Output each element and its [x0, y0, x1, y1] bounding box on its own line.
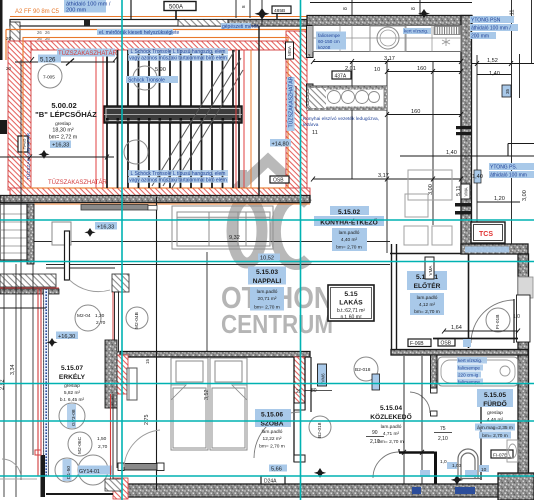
orange line below wall — [0, 203, 310, 205]
circle label T-005 upper left — [38, 64, 62, 88]
dim line y63 right — [472, 63, 534, 65]
orange utility line top — [6, 29, 307, 31]
furdo door frames — [431, 388, 438, 393]
label 5.15.03 NAPPALI — [248, 267, 286, 311]
label 5.15.04 KOZLEKEDO — [370, 405, 411, 445]
svg-text:5,90: 5,90 — [155, 67, 166, 73]
vertical dim line kozlekedo2 — [421, 356, 423, 484]
svg-text:485B: 485B — [274, 8, 285, 14]
dim line stairwell y157 — [0, 156, 114, 158]
label D24A box bottom — [261, 476, 285, 485]
sofa — [172, 206, 273, 249]
svg-text:5.15.07: 5.15.07 — [61, 365, 83, 372]
svg-text:+16,30: +16,30 — [58, 334, 75, 340]
svg-text:4,12 m²: 4,12 m² — [419, 302, 436, 308]
furdo door arc — [410, 392, 430, 413]
svg-text:2,10: 2,10 — [370, 439, 380, 445]
label +16,33 stairwell — [50, 141, 71, 149]
elevation star kozlekedo bottom — [314, 468, 326, 478]
svg-text:200 mm: 200 mm — [66, 8, 87, 14]
left edge black bar upper — [0, 120, 7, 134]
hatched corner block top-left — [10, 22, 20, 44]
left dim lines — [4, 60, 33, 497]
svg-text:VMA: VMA — [428, 265, 433, 276]
svg-text:2,10: 2,10 — [438, 436, 448, 442]
balcony railing red lines — [38, 289, 49, 476]
fire wall red hatch left band — [8, 41, 31, 190]
svg-text:3,34: 3,34 — [10, 365, 16, 376]
svg-text:TŰZSZAKASZHATÁR: TŰZSZAKASZHATÁR — [48, 179, 108, 186]
kitchen left thin wall upper — [307, 26, 314, 58]
label TUZSZAKASZHATAR vertical on right band — [287, 76, 295, 131]
balcony top rail second line — [46, 267, 115, 269]
svg-text:10: 10 — [374, 67, 380, 73]
elevation star stairwell — [38, 150, 49, 159]
label 5.15.07 ERKELY — [59, 365, 86, 403]
label Schock highlighted mid — [126, 76, 178, 84]
balcony bottom rail line — [46, 493, 113, 495]
fire wall red hatch right band — [286, 31, 307, 197]
label OSB box right of stairwell — [270, 176, 289, 184]
svg-text:FI-07B: FI-07B — [493, 453, 507, 459]
svg-text:8: 8 — [343, 7, 349, 10]
dim line 3,17 — [313, 61, 461, 63]
cyan grid horizontal H2 — [0, 261, 534, 263]
svg-text:NAPPALI: NAPPALI — [253, 278, 282, 285]
svg-text:F-06B: F-06B — [410, 341, 424, 347]
nappali dim line vertical — [206, 252, 208, 352]
svg-text:4,71 m²: 4,71 m² — [383, 431, 400, 437]
svg-text:3,00: 3,00 — [522, 190, 528, 201]
label YTONG PSN — [470, 16, 518, 40]
svg-text:bm= 2,70 m: bm= 2,70 m — [378, 439, 403, 445]
svg-text:2,70: 2,70 — [96, 320, 106, 326]
svg-text:lam.padló: lam.padló — [381, 424, 402, 430]
stair up-arrow circle lower — [124, 140, 148, 164]
north cross — [255, 8, 270, 20]
orange line top y16.5 — [10, 16, 310, 18]
balcony top gray hatch band — [0, 274, 56, 287]
svg-text:200 mm: 200 mm — [471, 34, 489, 40]
svg-text:TŰZSZAKASZHATÁR: TŰZSZAKASZHATÁR — [288, 76, 295, 127]
label VM6 blue box — [318, 364, 327, 386]
svg-text:4,40 m²: 4,40 m² — [341, 237, 358, 243]
label 5.15.06 SZOBA — [255, 409, 291, 450]
railing red top box — [35, 450, 41, 455]
kitchen eloter boundary line — [390, 253, 461, 255]
svg-text:500A: 500A — [169, 5, 183, 11]
svg-text:áthidaló 100 mm /: áthidaló 100 mm / — [471, 26, 511, 32]
svg-text:1,20: 1,20 — [494, 196, 505, 202]
pipe bar on right wall b — [455, 211, 472, 215]
label M2-04 circle — [75, 305, 106, 331]
radiator TCS box — [471, 222, 505, 243]
label kert vizsg kitchen — [403, 28, 431, 34]
svg-text:15: 15 — [145, 359, 150, 364]
svg-text:CENTRUM: CENTRUM — [221, 309, 333, 339]
railing lower black segment — [41, 455, 46, 497]
svg-text:26: 26 — [37, 30, 42, 35]
svg-text:vagy azonos műszaki tartalomma: vagy azonos műszaki tartalommal bíró ele… — [129, 56, 227, 62]
svg-text:b.t.:62,71 m²: b.t.:62,71 m² — [337, 308, 365, 314]
svg-text:18,30 m²: 18,30 m² — [52, 128, 73, 134]
bottom left hatch pillar — [113, 478, 128, 499]
label 485B box — [272, 6, 291, 19]
bottom right corner block — [498, 473, 534, 500]
svg-text:26: 26 — [45, 30, 50, 35]
svg-text:bm= 2,70 m: bm= 2,70 m — [336, 245, 361, 251]
toilet arch — [455, 449, 480, 479]
step boundary lines right — [400, 144, 534, 157]
szoba door frame top — [294, 403, 305, 410]
label Konyhai elszivo — [303, 116, 379, 128]
label falicsempe kitchen — [316, 32, 346, 51]
svg-text:ELŐTÉR: ELŐTÉR — [414, 281, 441, 290]
svg-text:26: 26 — [45, 36, 50, 41]
pipe bar right wall upper pair — [456, 126, 472, 129]
svg-text:M2-04: M2-04 — [77, 313, 91, 319]
label gepeszeti merook — [221, 23, 259, 30]
balcony door leaf bottom — [118, 430, 164, 471]
section line y264 — [46, 264, 390, 266]
red line under hatch band — [0, 287, 59, 289]
elevation star erkely — [46, 338, 57, 347]
nappali west window — [113, 292, 119, 352]
label F-06B box — [408, 339, 431, 347]
dim line y202 right — [477, 201, 520, 203]
svg-text:ERKÉLY: ERKÉLY — [59, 372, 86, 381]
svg-text:11: 11 — [312, 130, 318, 136]
svg-text:lam.padló: lam.padló — [257, 289, 278, 295]
svg-text:10: 10 — [481, 467, 487, 473]
svg-text:D24A: D24A — [264, 479, 277, 485]
top tick marks — [262, 0, 420, 25]
svg-text:Konyhai elszívó vezeték ledugó: Konyhai elszívó vezeték ledugózva, — [303, 116, 379, 122]
svg-text:vagy azonos műszaki tartalomma: vagy azonos műszaki tartalommal bíró ele… — [129, 178, 227, 184]
svg-text:3,52: 3,52 — [204, 390, 210, 401]
cyan grid horizontal H4 — [0, 420, 534, 422]
svg-text:n.t. 60 m²: n.t. 60 m² — [340, 315, 361, 321]
cyan grid vertical line V2 — [300, 0, 302, 500]
blue VMA box on wall 352 — [372, 374, 380, 390]
dim line y74 short — [477, 74, 511, 76]
svg-text:lezárva: lezárva — [303, 122, 319, 128]
kitchen top counter — [313, 26, 461, 52]
red hatch pillar szoba west — [115, 355, 128, 394]
bottom exterior wall — [127, 484, 528, 497]
svg-text:1,52: 1,52 — [487, 58, 498, 64]
svg-text:el. mérőórák kieseti helyszüks: el. mérőórák kieseti helyszükséglete — [99, 30, 180, 36]
dim vertical line x512 — [511, 0, 513, 253]
dim line 160 second — [387, 114, 461, 116]
szoba window on west — [127, 368, 137, 400]
svg-text:437A: 437A — [335, 74, 347, 80]
wall line right of stairs — [258, 26, 260, 195]
dim vertical line x477 — [476, 55, 478, 253]
svg-text:9,32: 9,32 — [229, 235, 240, 241]
cyan grid horizontal H3 — [0, 383, 534, 385]
red fire lines inside stairwell — [95, 50, 97, 188]
bed right — [210, 358, 247, 450]
svg-text:falicsempe: falicsempe — [458, 366, 480, 371]
kitchen side counter — [307, 86, 387, 110]
section line y241 — [33, 241, 390, 243]
svg-text:kert vízszig.: kert vízszig. — [458, 358, 482, 363]
gray niche on right wall — [518, 277, 533, 298]
svg-text:bm= 2,70 m: bm= 2,70 m — [259, 444, 284, 450]
balcony bottom gray line — [0, 478, 37, 480]
vertical dim line kozlekedo — [403, 356, 405, 484]
svg-text:M2-04B: M2-04B — [134, 312, 140, 329]
svg-text:+16,33: +16,33 — [52, 143, 69, 149]
label 5.15 LAKAS box — [328, 285, 374, 321]
svg-text:1,0: 1,0 — [513, 314, 520, 320]
entry door opening white — [517, 295, 531, 342]
svg-text:GY3-08: GY3-08 — [71, 409, 77, 426]
dim line 160 — [387, 71, 461, 73]
svg-text:5,126: 5,126 — [40, 57, 56, 64]
svg-text:13: 13 — [305, 54, 311, 60]
label TUZSZAKASZHATAR top (blue highlight) — [57, 49, 118, 58]
stair up-arrow circle upper — [133, 66, 157, 90]
label M2-04B circle — [126, 307, 148, 329]
stair treads lower flight — [107, 122, 239, 188]
svg-text:1,40: 1,40 — [489, 71, 500, 77]
bathtub — [438, 357, 518, 386]
svg-text:2,70: 2,70 — [98, 444, 108, 450]
svg-text:TCS: TCS — [479, 231, 493, 238]
conc segment of top wall — [228, 20, 307, 27]
svg-text:5.00.02: 5.00.02 — [51, 101, 76, 110]
svg-text:1,0: 1,0 — [440, 459, 447, 465]
szoba west wall gray blocks — [105, 340, 117, 408]
dim vertical right edge — [531, 0, 533, 64]
blue small boxes furdo — [463, 339, 471, 347]
stair landing slab — [104, 106, 242, 123]
shaft square nappali west — [52, 222, 71, 245]
label 10,52 — [258, 254, 280, 262]
svg-text:bm= 2,70 m: bm= 2,70 m — [254, 305, 279, 311]
label +16,33 nappali — [95, 222, 117, 231]
label Schock Tronsole upper — [128, 48, 228, 62]
szoba east wall lines — [294, 357, 305, 462]
kitchen top exterior wall — [307, 16, 472, 26]
svg-text:kert vízszig.: kert vízszig. — [404, 29, 428, 34]
svg-text:12,22 m²: 12,22 m² — [263, 436, 282, 442]
dim vertical at x352 — [351, 62, 353, 179]
landing baluster dots — [106, 118, 241, 121]
elevation star nappali — [84, 228, 95, 237]
svg-text:90: 90 — [372, 430, 378, 436]
svg-text:5,66: 5,66 — [271, 467, 282, 473]
svg-text:YTONG PSN: YTONG PSN — [471, 18, 501, 24]
top dim line kitchen — [310, 2, 472, 4]
kitchen sink circles — [377, 27, 399, 49]
svg-text:FÜRDŐ: FÜRDŐ — [483, 399, 506, 408]
svg-text:GY14-01: GY14-01 — [79, 469, 100, 475]
kitchen left thin wall lower — [307, 84, 314, 106]
label Schock Tronsole lower — [128, 170, 228, 184]
svg-text:20: 20 — [6, 36, 11, 41]
balcony bottom hatch — [105, 479, 122, 491]
entry door leaf — [513, 299, 515, 343]
svg-text:YTONG PS.: YTONG PS. — [490, 165, 517, 171]
box label on left band — [18, 136, 28, 152]
label +14,80 — [270, 139, 291, 148]
wall nappali/szoba + eloter/kozlekedo — [120, 352, 310, 358]
fire wall red hatch bottom band — [10, 188, 310, 196]
svg-text:B2-018: B2-018 — [355, 367, 371, 373]
left edge black bar lower — [0, 205, 7, 228]
svg-text:A2 FF 90 8m C5: A2 FF 90 8m C5 — [15, 9, 60, 15]
svg-text:lam.padló: lam.padló — [339, 230, 360, 236]
svg-text:greslap: greslap — [55, 121, 71, 127]
right exterior wall lower — [518, 254, 529, 500]
dim vertical at x387 — [386, 62, 388, 253]
svg-text:VMA: VMA — [464, 187, 469, 196]
svg-text:1,40: 1,40 — [472, 174, 483, 180]
szoba door frame bottom — [294, 455, 305, 462]
label athidalo top-left — [64, 0, 111, 14]
label 5.15.02 KONYHA — [314, 206, 384, 251]
label +16,30 erkely — [56, 332, 78, 341]
label kert vizszig furdo — [457, 357, 487, 385]
svg-text:bm= 2,70 m: bm= 2,70 m — [414, 309, 439, 315]
small cross top kitchen — [418, 9, 430, 18]
small VMA box on right wall — [461, 184, 470, 199]
svg-text:ájm.mag=2,35 m: ájm.mag=2,35 m — [477, 425, 513, 431]
vertical VMA label — [425, 257, 434, 279]
label GY14-01 circle — [78, 455, 112, 485]
label GY3-08 circle — [59, 403, 85, 429]
svg-text:L Schöck Tronsole L típusú han: L Schöck Tronsole L típusú hangszig. ele… — [131, 171, 226, 177]
dim line 1,64 — [444, 330, 518, 332]
left edge thin line top — [0, 0, 3, 60]
small blue box right — [502, 85, 511, 97]
cyan grid vertical line V1 — [121, 0, 123, 500]
svg-text:L Schöck Tronsole L típusú han: L Schöck Tronsole L típusú hangszig. ele… — [131, 49, 226, 55]
svg-text:B2-018: B2-018 — [317, 422, 323, 438]
svg-text:LAKÁS: LAKÁS — [339, 298, 363, 307]
svg-text:D1-50: D1-50 — [66, 466, 72, 479]
szoba door arc — [254, 412, 300, 458]
label 5.15.01 ELOTER — [407, 271, 447, 315]
svg-text:bm= 2,70 m: bm= 2,70 m — [482, 433, 507, 439]
leader line konyhai elszivo — [296, 86, 302, 116]
svg-text:+16,33: +16,33 — [97, 225, 114, 231]
top dim verticals — [236, 0, 250, 18]
eloter partition thin wall — [468, 254, 470, 348]
cyan grid horizontal H5 — [0, 475, 534, 477]
szoba west red line — [110, 394, 112, 479]
svg-text:gépészeti mérőó: gépészeti mérőó — [222, 24, 259, 30]
wall shelf bar — [81, 205, 157, 211]
stair treads upper flight — [107, 50, 239, 107]
label D1-50 circle — [55, 458, 79, 482]
svg-text:M2-06C: M2-06C — [77, 436, 83, 454]
svg-text:3,00: 3,00 — [428, 184, 434, 195]
svg-text:2,52: 2,52 — [0, 380, 6, 391]
dishwasher striped block — [434, 27, 460, 35]
svg-text:80: 80 — [311, 388, 317, 394]
svg-text:5.15.06: 5.15.06 — [261, 412, 283, 419]
watermark logo house roof — [236, 160, 302, 192]
svg-text:5,82 m²: 5,82 m² — [64, 390, 81, 396]
wc niche thick walls — [399, 449, 436, 484]
svg-text:8: 8 — [411, 7, 417, 10]
svg-text:10,52: 10,52 — [260, 256, 274, 262]
furdo lower partition — [480, 391, 482, 480]
svg-text:áthidaló 100 mm: áthidaló 100 mm — [490, 173, 527, 179]
label MSA vertical small — [286, 42, 294, 59]
label B2-018 circle kozlekedo — [354, 357, 378, 381]
svg-text:között: között — [318, 45, 331, 50]
dim line 25-80 — [305, 390, 332, 392]
dimension tick marks — [28, 57, 520, 455]
svg-text:5.15.03: 5.15.03 — [256, 269, 278, 276]
svg-text:1,40: 1,40 — [446, 150, 457, 156]
balcony door leaf vertical — [65, 231, 111, 292]
label B2-018 circle szoba door — [309, 416, 331, 438]
svg-text:KÖZLEKEDŐ: KÖZLEKEDŐ — [370, 412, 411, 421]
svg-text:5.15.05: 5.15.05 — [484, 392, 506, 399]
bed left — [171, 358, 208, 450]
svg-text:HA05: HA05 — [22, 138, 27, 150]
wc door arc — [373, 452, 399, 478]
svg-text:MSA: MSA — [287, 45, 292, 56]
watermark OC letters — [232, 199, 308, 265]
svg-text:"B" LÉPCSŐHÁZ: "B" LÉPCSŐHÁZ — [35, 110, 97, 119]
svg-text:8: 8 — [241, 5, 246, 8]
neighbor door arc bottom-left — [2, 459, 21, 478]
svg-text:lam.padló: lam.padló — [262, 429, 283, 435]
svg-text:5.15: 5.15 — [344, 291, 357, 298]
dim line 3,17 mid — [313, 178, 461, 180]
orange line left vertical — [5, 30, 7, 61]
red hatch pillar szoba east — [294, 357, 305, 407]
label 5,126 dim — [15, 55, 115, 66]
fire wall red hatch top band — [10, 41, 307, 50]
balcony top stipple — [0, 289, 59, 294]
svg-text:35: 35 — [505, 88, 510, 94]
small sink furdo — [507, 440, 518, 462]
wall eloter top — [461, 244, 528, 254]
label 5,66 — [269, 465, 287, 473]
label OSB box eloter — [438, 339, 455, 347]
svg-text:1,20: 1,20 — [95, 313, 105, 319]
svg-text:60-150 cm: 60-150 cm — [318, 39, 340, 44]
svg-text:falicsempe: falicsempe — [318, 33, 340, 38]
svg-text:b.t. 6,45 m²: b.t. 6,45 m² — [60, 397, 85, 403]
dim vertical at x433 — [432, 62, 434, 225]
elevation star furdo bottom — [451, 475, 463, 485]
svg-text:OSB: OSB — [273, 178, 284, 184]
orange stair room boundary rect — [23, 38, 288, 189]
top leader x131 — [130, 0, 132, 19]
szoba west thin wall lines — [112, 394, 114, 479]
svg-text:greslap: greslap — [487, 410, 503, 416]
svg-text:OSB: OSB — [441, 341, 452, 347]
dim line 35 vertical — [519, 54, 521, 98]
svg-text:4,46 m²: 4,46 m² — [487, 417, 504, 423]
svg-text:2,75: 2,75 — [144, 415, 150, 426]
svg-text:+14,80: +14,80 — [272, 142, 289, 148]
dining table rects — [404, 170, 452, 245]
svg-text:26: 26 — [37, 36, 42, 41]
facade line nappali — [156, 197, 158, 490]
svg-text:5.15.04: 5.15.04 — [380, 405, 402, 412]
label 437A box — [332, 71, 351, 80]
